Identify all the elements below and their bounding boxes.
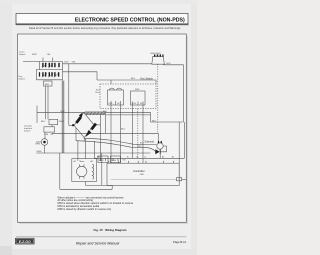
- svg-text:Page B-11: Page B-11: [173, 240, 186, 244]
- svg-text:BLK: BLK: [65, 62, 70, 64]
- svg-text:A1: A1: [172, 156, 174, 159]
- svg-text:BLK: BLK: [167, 63, 172, 65]
- svg-text:WHT: WHT: [32, 54, 38, 56]
- svg-text:BLK: BLK: [152, 120, 157, 122]
- svg-text:ELECTRONIC SPEED CONTROL (NON-: ELECTRONIC SPEED CONTROL (NON-PDS): [75, 18, 185, 24]
- svg-text:MS3: MS3: [99, 160, 104, 162]
- svg-text:MS1: MS1: [45, 84, 50, 86]
- svg-text:GRN: GRN: [37, 151, 42, 153]
- svg-text:BLK: BLK: [61, 111, 66, 113]
- svg-text:COM: COM: [108, 103, 113, 105]
- svg-text:BLU: BLU: [41, 121, 46, 123]
- svg-text:ORN: ORN: [35, 144, 40, 146]
- svg-text:BLU: BLU: [121, 129, 126, 131]
- svg-text:Controller: Controller: [133, 169, 145, 173]
- svg-text:A1: A1: [74, 160, 76, 163]
- svg-text:COM: COM: [132, 103, 137, 105]
- svg-text:MS5: MS5: [135, 89, 140, 91]
- svg-text:A2: A2: [91, 160, 93, 163]
- svg-text:C4B: C4B: [140, 174, 145, 176]
- svg-text:GRN: GRN: [59, 121, 64, 123]
- svg-text:MS4: MS4: [112, 160, 117, 162]
- svg-text:Solenoid: Solenoid: [145, 141, 155, 144]
- svg-text:Read all of Section B and this: Read all of Section B and this section b…: [29, 27, 181, 30]
- svg-text:A2: A2: [162, 156, 164, 159]
- svg-text:KSI: KSI: [123, 160, 126, 162]
- svg-text:B+: B+: [127, 157, 129, 159]
- svg-text:MS5 is closed by direction swi: MS5 is closed by direction switch in rev…: [58, 208, 112, 211]
- svg-text:Switch: Switch: [19, 53, 26, 56]
- svg-text:BLU: BLU: [131, 78, 136, 80]
- svg-text:Key Switch: Key Switch: [141, 77, 154, 80]
- svg-text:E-Z-GO: E-Z-GO: [19, 240, 31, 244]
- svg-text:Motor: Motor: [80, 160, 85, 163]
- svg-text:BLK: BLK: [103, 111, 108, 113]
- svg-text:Switch: Switch: [19, 78, 26, 81]
- svg-text:Switch: Switch: [24, 130, 31, 133]
- svg-text:COM: COM: [44, 134, 49, 136]
- svg-text:Fig. 15 Wiring Diagram: Fig. 15 Wiring Diagram: [94, 228, 127, 232]
- svg-text:Repair and Service Manual: Repair and Service Manual: [76, 241, 120, 245]
- svg-text:RED/WHT: RED/WHT: [151, 53, 162, 55]
- svg-text:BLK: BLK: [97, 157, 102, 159]
